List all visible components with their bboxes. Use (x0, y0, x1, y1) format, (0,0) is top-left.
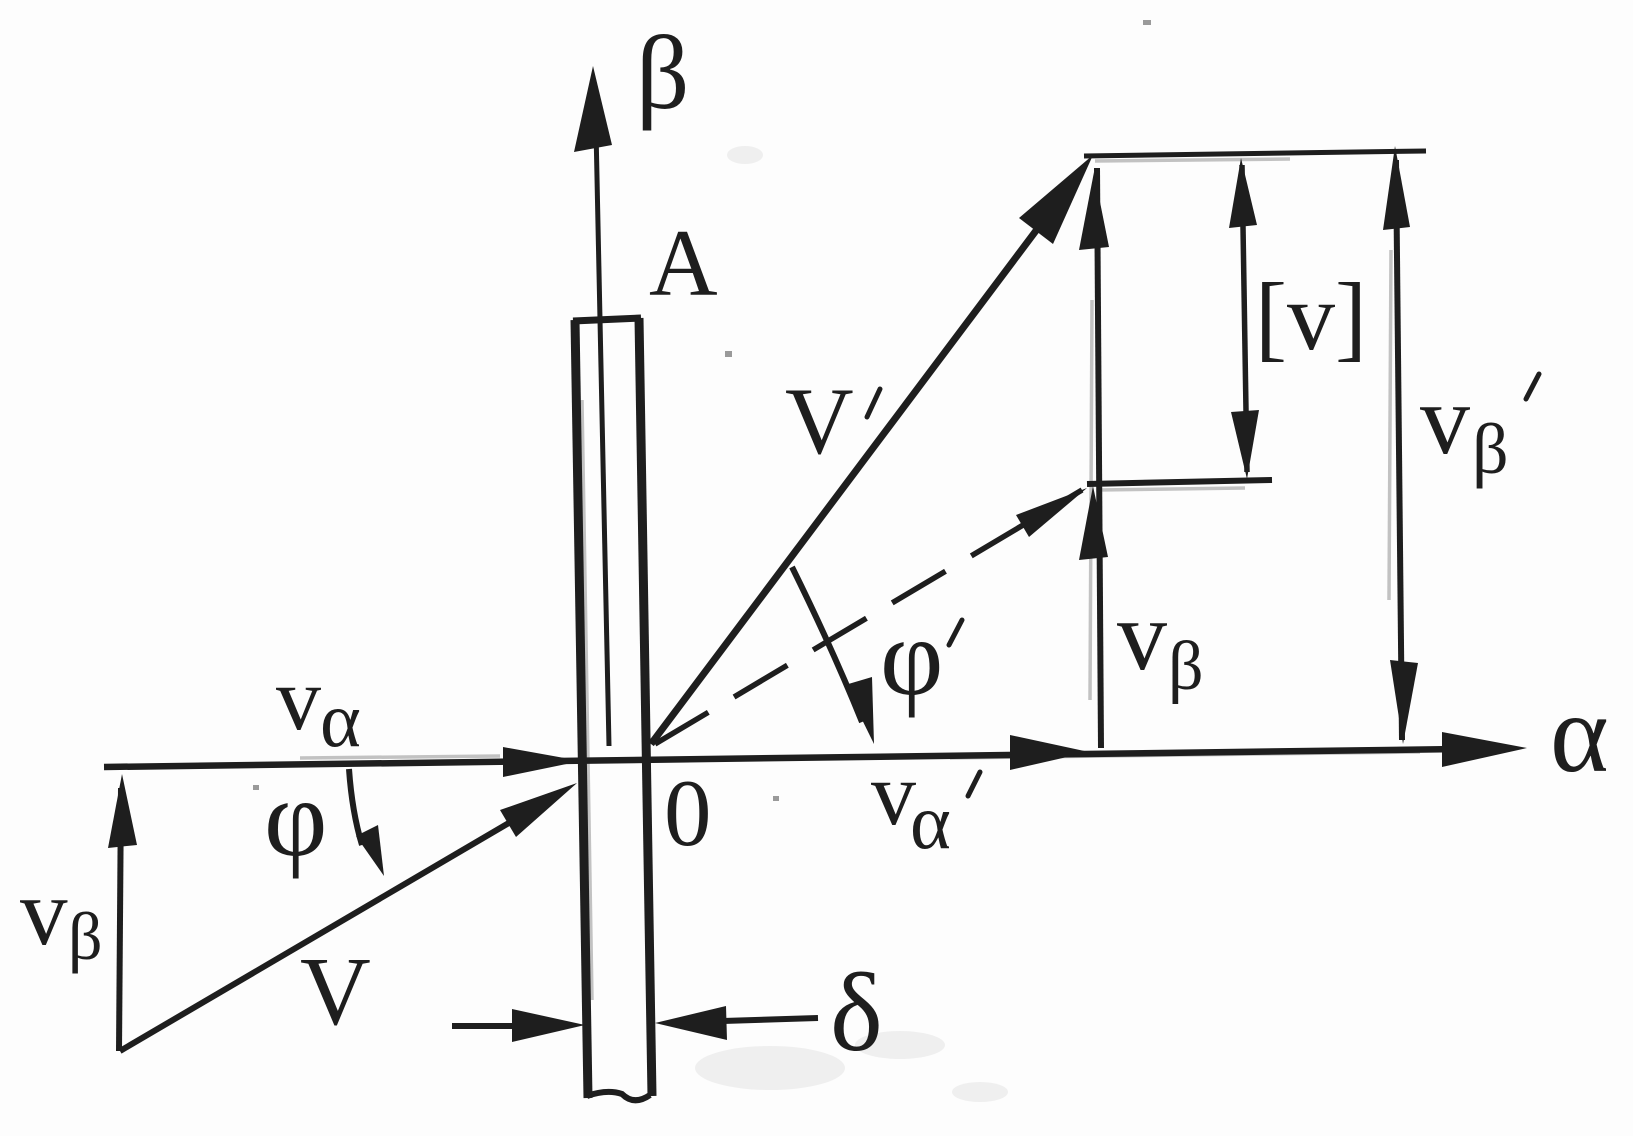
svg-text:β: β (1168, 628, 1204, 705)
svg-text:0: 0 (664, 760, 712, 866)
svg-text:V: V (300, 938, 371, 1046)
svg-text:φ: φ (264, 757, 328, 879)
svg-text:β: β (636, 14, 689, 131)
svg-text:β: β (1472, 409, 1509, 489)
svg-text:φ: φ (880, 596, 944, 718)
svg-text:v: v (1117, 580, 1167, 691)
svg-text:α: α (910, 778, 951, 865)
svg-text:v: v (1420, 364, 1470, 475)
svg-text:A: A (649, 210, 718, 316)
svg-text:V: V (785, 368, 854, 474)
svg-text:[v]: [v] (1255, 263, 1367, 370)
svg-text:v: v (276, 650, 321, 749)
svg-text:v: v (20, 859, 68, 965)
svg-text:α: α (320, 676, 361, 763)
svg-text:α: α (1550, 672, 1609, 796)
svg-text:δ: δ (830, 951, 883, 1075)
svg-text:β: β (68, 898, 103, 974)
